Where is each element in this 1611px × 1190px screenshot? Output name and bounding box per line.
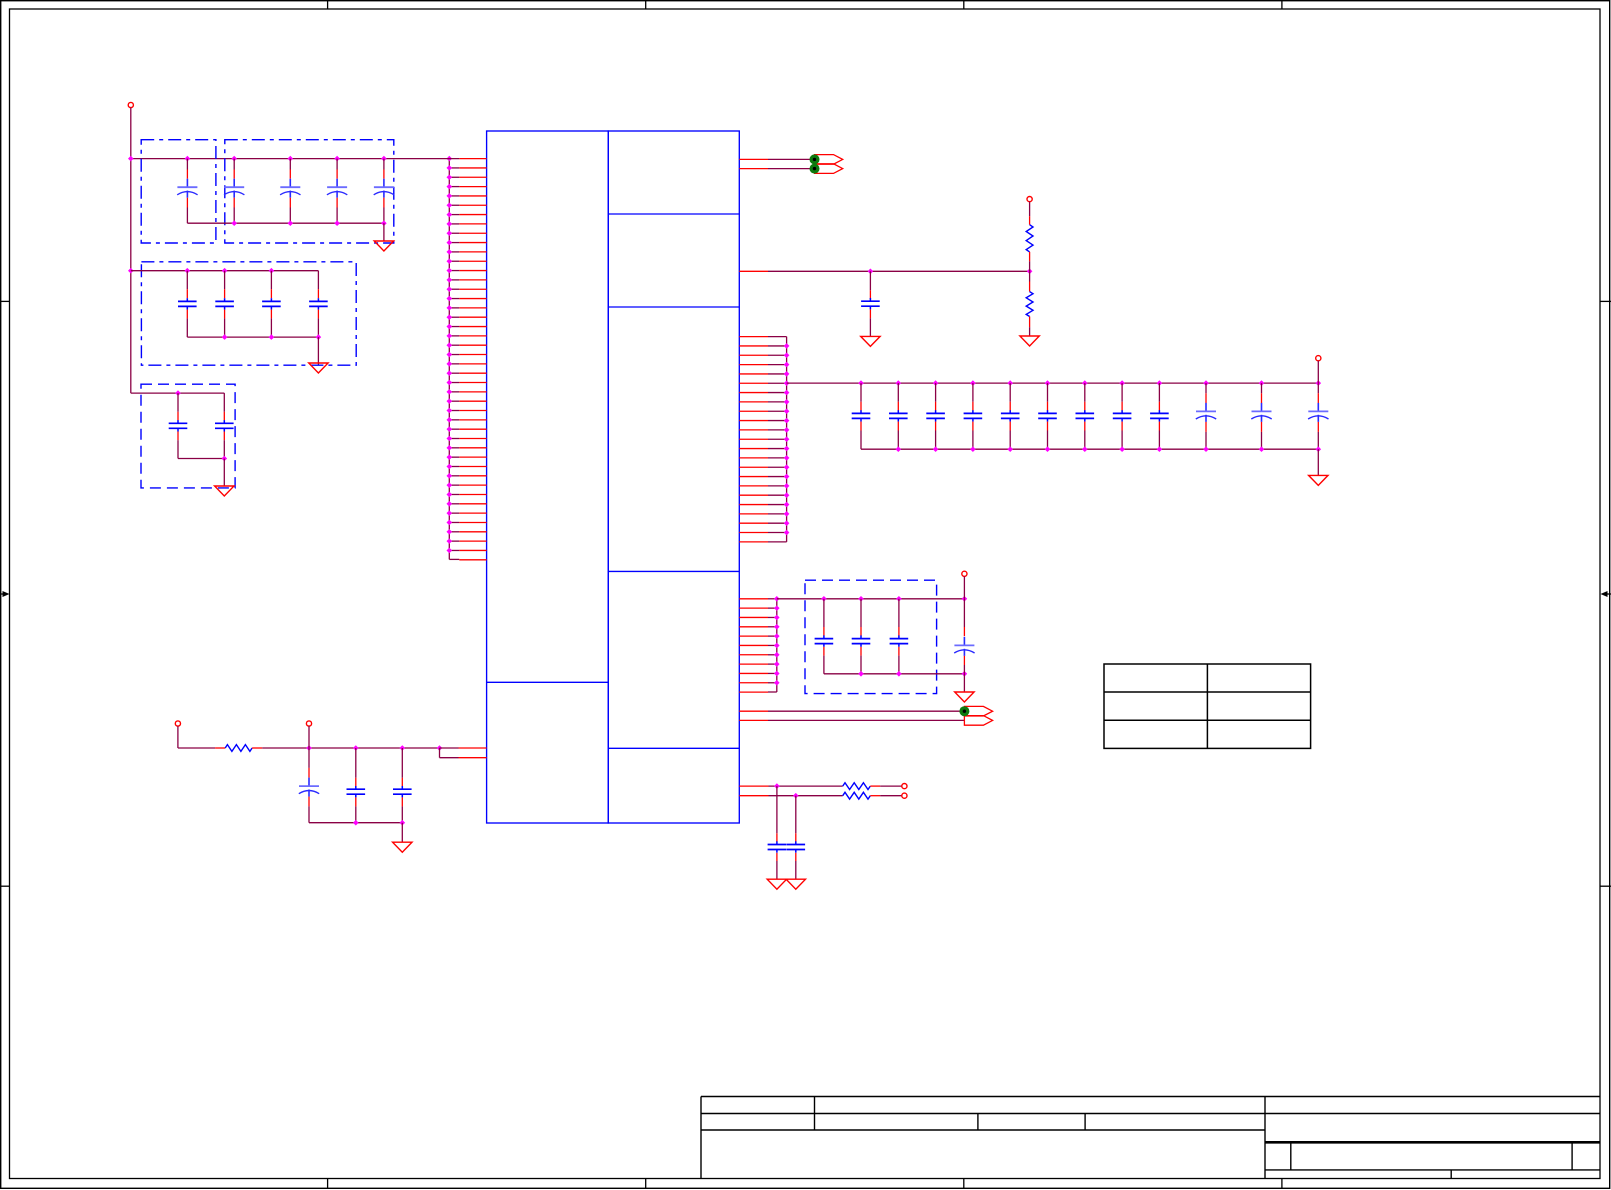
U1 lower right pin 4 (739, 626, 768, 628)
wire to ground G10 (401, 823, 403, 843)
capacitor C15 (933, 380, 939, 386)
connector J1 (off-page, 2 pins) (815, 155, 843, 165)
ground G6 (1309, 475, 1328, 485)
U1 lower right pin 10 (739, 682, 768, 684)
U1 right pin 17 (739, 485, 768, 487)
resistor R4 (843, 792, 871, 799)
capacitor C7 (222, 268, 228, 274)
wire from T1 down the left side (130, 108, 132, 394)
wire R4 to T6 (870, 795, 880, 797)
U1 left pin 22 (459, 354, 486, 356)
wire to ground G3 (223, 459, 225, 487)
U1 left pin 37 (459, 493, 486, 495)
U1 left pin 3 (459, 176, 486, 178)
U1 lower right pin 9 (739, 672, 768, 674)
U1 left pin 20 (459, 335, 486, 337)
U1 pin (bottom right 2) (739, 795, 768, 797)
U1 right pin 18 (739, 494, 768, 496)
ground G3 (215, 486, 234, 496)
U1 right pin 16 (739, 476, 768, 478)
ground G1 (374, 241, 393, 251)
wire to ground G1 (383, 223, 385, 241)
ground G4 (861, 336, 880, 346)
wire to ground G7 (963, 674, 965, 692)
terminal T1 (top-left supply input) (128, 102, 133, 107)
terminal T7 (175, 721, 180, 726)
U1 left pin 30 (459, 428, 486, 430)
capacitor group box DNP4 (141, 384, 235, 488)
U1 right pin 11 (739, 429, 768, 431)
connector J2 (off-page, 2 pins) (964, 706, 992, 716)
capacitor C22 (polarized) (1203, 380, 1209, 386)
U1 right pin 22 (739, 532, 768, 534)
group2 bottom bus wire (187, 336, 318, 338)
wire T8 down (308, 726, 310, 748)
wire into U1 pin row (459, 747, 487, 749)
U1 left pin 2 (459, 167, 486, 169)
bulk row bottom bus wire (861, 448, 1318, 450)
U1 lower right pin 5 (739, 635, 768, 637)
U1 left pin 16 (459, 298, 486, 300)
U1 right pin 2 (739, 345, 768, 347)
group4 supply wire (777, 598, 965, 600)
wire step to second pin (439, 748, 441, 758)
U1 left pin 32 (459, 447, 486, 449)
resistor R1 (1026, 225, 1033, 252)
U1 lower right pin bus wire (776, 599, 778, 692)
U1 lower right pin 1 (739, 598, 768, 600)
U1 left pin 4 (459, 186, 486, 188)
capacitor C20 (1119, 380, 1125, 386)
capacitor C32 (355, 748, 357, 778)
group3 supply wire (131, 392, 225, 394)
IC U1 (main device outline) (487, 131, 740, 823)
capacitor C25 (821, 596, 827, 602)
capacitor C30 (795, 796, 797, 834)
capacitor C13 (858, 380, 864, 386)
U1 left pin 7 (459, 214, 486, 216)
group2 supply wire (131, 270, 319, 272)
revision table (1104, 664, 1311, 748)
U1 left pin 38 (459, 503, 486, 505)
terminal T6 (902, 793, 907, 798)
U1 left pin 44 (459, 559, 486, 561)
wire R3 to T5 (870, 785, 880, 787)
bulk cap row supply wire (787, 382, 1319, 384)
node wire to divider (768, 270, 1030, 272)
resistor R3 (843, 783, 871, 790)
U1 lower right pin 11 (739, 691, 768, 693)
capacitor group box DNP3 (141, 262, 356, 365)
U1 right pin 23 (739, 541, 768, 543)
U1 left pin 12 (459, 260, 486, 262)
capacitor C18 (1045, 380, 1051, 386)
capacitor C33 (401, 748, 403, 778)
terminal T8 (306, 721, 311, 726)
U1 left pin 6 (459, 204, 486, 206)
capacitor C6 (185, 268, 191, 274)
U1 lower right pin 6 (739, 644, 768, 646)
U1 right pin 21 (739, 522, 768, 524)
U1 left pin 35 (459, 475, 486, 477)
U1 right pin 3 (739, 354, 768, 356)
wire R5 to U1 (262, 747, 439, 749)
U1 right pin 19 (739, 504, 768, 506)
U1 right pin 20 (739, 513, 768, 515)
U1 right pin 1 (739, 336, 768, 338)
wire to ground G2 (317, 337, 319, 364)
capacitor C2 (231, 156, 237, 162)
U1 pins to J2 (739, 710, 768, 712)
capacitor C24 (polarized) (1316, 380, 1322, 386)
resistor R5 (225, 745, 252, 752)
U1 right pin 5 (739, 373, 768, 375)
U1 right pin 15 (739, 466, 768, 468)
capacitor C28 (polarized) (962, 596, 968, 602)
U1 left pin 28 (459, 410, 486, 412)
capacitor C9 (317, 271, 319, 290)
U1 left pin 17 (459, 307, 486, 309)
ground G9 (786, 879, 805, 889)
U1 left pin 42 (459, 540, 486, 542)
U1 lower right pin 7 (739, 654, 768, 656)
capacitor group box DNP5 (805, 580, 937, 693)
U1 left pin bank bus wire (448, 159, 450, 560)
ground G2 (309, 363, 328, 373)
U1 left pin 27 (459, 400, 486, 402)
ground G7 (955, 692, 974, 702)
U1 left pin 29 (459, 419, 486, 421)
ground G8 (767, 879, 786, 889)
U1 right pin 9 (739, 410, 768, 412)
wire T7 down (177, 726, 179, 748)
U1 left pin 14 (459, 279, 486, 281)
capacitor C12 (869, 271, 871, 290)
capacitor C14 (896, 380, 902, 386)
U1 left pin 23 (459, 363, 486, 365)
group4 bottom bus wire (824, 673, 965, 675)
U1 left pin 8 (459, 223, 486, 225)
capacitor C29 (776, 786, 778, 833)
U1 left pin 24 (459, 372, 486, 374)
U1 lower right pin 3 (739, 616, 768, 618)
U1 left pin 11 (459, 251, 486, 253)
U1 right pin 4 (739, 364, 768, 366)
title block (701, 1096, 1600, 1098)
U1 left pin 13 (459, 270, 486, 272)
U1 left pin 43 (459, 549, 486, 551)
U1 right pin 10 (739, 420, 768, 422)
ground G10 (393, 842, 412, 852)
U1 left pin 19 (459, 326, 486, 328)
group1 bottom bus wire (187, 222, 384, 224)
U1 pin (bottom right 1) (739, 785, 768, 787)
U1 right pin 14 (739, 457, 768, 459)
capacitor C17 (1007, 380, 1013, 386)
wire to ground G6 (1317, 449, 1319, 475)
U1 right pin bank bus wire (786, 337, 788, 542)
U1 right pin 6 (739, 382, 768, 384)
U1 right pin 8 (739, 401, 768, 403)
U1 right pin 13 (739, 448, 768, 450)
capacitor C11 (223, 393, 225, 412)
U1 left pin 1 (459, 158, 486, 160)
wire T3 down (1317, 361, 1319, 383)
U1 lower right pin 2 (739, 607, 768, 609)
bottom-left bus wire (309, 822, 402, 824)
resistor R2 (1026, 292, 1033, 317)
U1 right pins to J1 (739, 158, 768, 160)
capacitor C21 (1157, 380, 1163, 386)
ground G5 (1020, 336, 1039, 346)
U1 left pin 25 (459, 382, 486, 384)
capacitor C23 (polarized) (1259, 380, 1265, 386)
capacitor C27 (896, 596, 902, 602)
capacitor group box DNP2 (225, 140, 394, 243)
U1 left pin 15 (459, 288, 486, 290)
capacitor C3 (288, 156, 294, 162)
U1 left pin 36 (459, 484, 486, 486)
capacitor group box DNP1 (141, 140, 216, 243)
wire T2 to R1 (1029, 202, 1031, 217)
node: supply rail to U1 (131, 158, 460, 160)
capacitor C10 (177, 393, 179, 412)
capacitor C19 (1082, 380, 1088, 386)
capacitor C5 (381, 156, 387, 162)
U1 pin (reference voltage) (739, 270, 768, 272)
wire R2 to ground G5 (1029, 327, 1031, 336)
wire T4 down (963, 576, 965, 598)
U1 left pin 33 (459, 456, 486, 458)
terminal T5 (902, 784, 907, 789)
capacitor C26 (858, 596, 864, 602)
terminal T3 (1316, 356, 1321, 361)
terminal T4 (962, 571, 967, 576)
wire R1 to R2 (1029, 271, 1031, 281)
U1 left pin 40 (459, 521, 486, 523)
capacitor C8 (269, 268, 275, 274)
capacitor C31 (polarized) (308, 748, 310, 768)
U1 left pin 26 (459, 391, 486, 393)
U1 left pin 5 (459, 195, 486, 197)
U1 left pin 41 (459, 531, 486, 533)
U1 left pin 10 (459, 242, 486, 244)
group3 bottom bus wire (178, 458, 224, 460)
U1 right pin 12 (739, 438, 768, 440)
capacitor C1 (185, 156, 191, 162)
U1 left pin 21 (459, 344, 486, 346)
U1 lower right pin 8 (739, 663, 768, 665)
U1 left pin 18 (459, 316, 486, 318)
U1 left pin 31 (459, 438, 486, 440)
U1 left pin 34 (459, 465, 486, 467)
U1 right pin 7 (739, 392, 768, 394)
capacitor C4 (334, 156, 340, 162)
U1 left pin 39 (459, 512, 486, 514)
terminal T2 (1027, 197, 1032, 202)
U1 left pin 9 (459, 232, 486, 234)
capacitor C16 (970, 380, 976, 386)
